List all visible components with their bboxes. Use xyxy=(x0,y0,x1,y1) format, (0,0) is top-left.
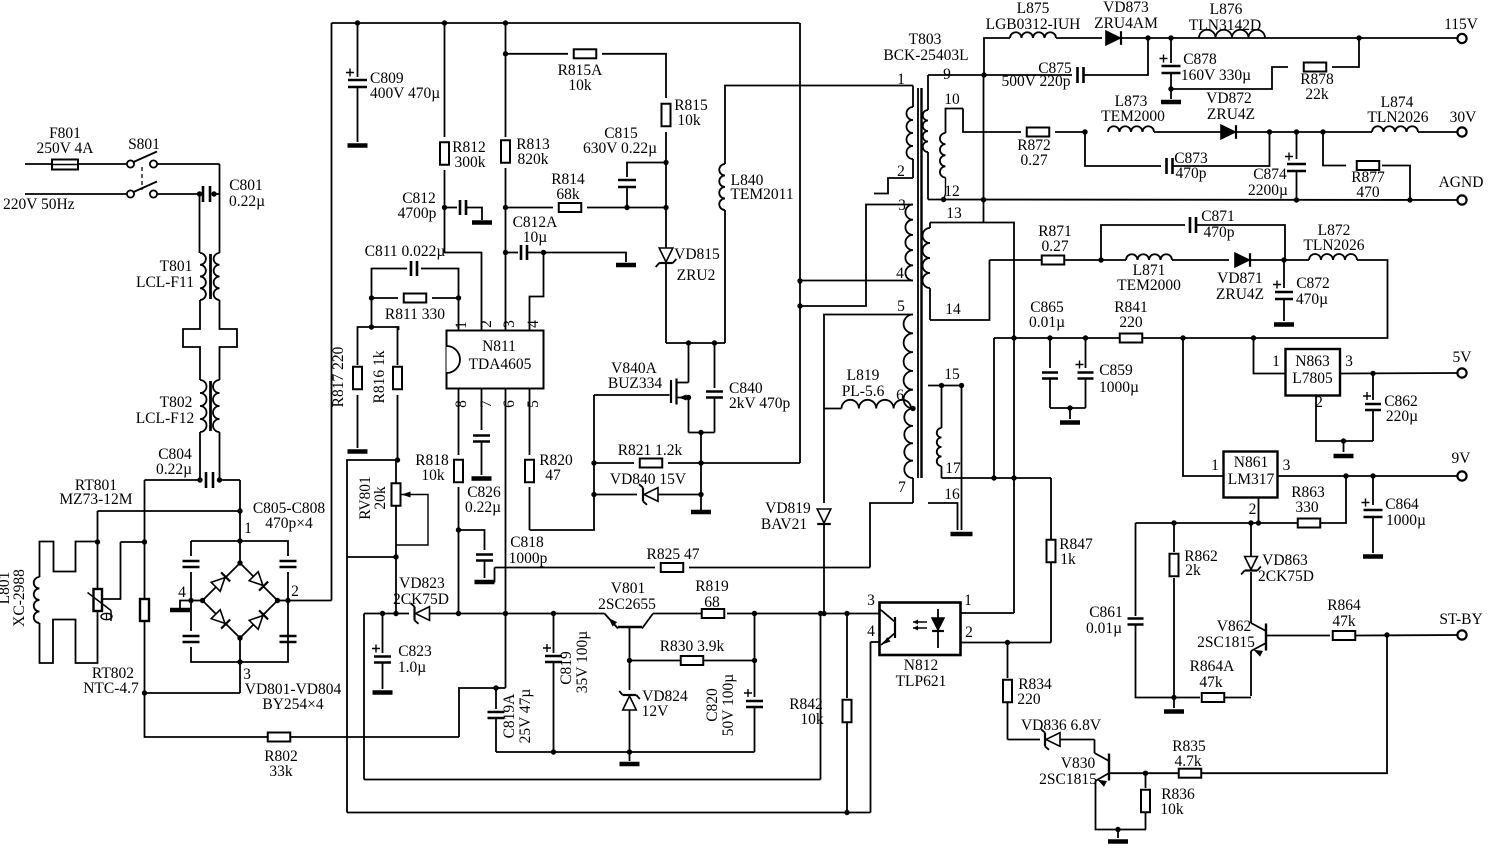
svg-text:VD873: VD873 xyxy=(1103,0,1149,16)
junction R821 right xyxy=(698,460,703,465)
resistor R864A xyxy=(1202,693,1225,702)
svg-text:C820: C820 xyxy=(704,688,721,722)
svg-text:30V: 30V xyxy=(1450,109,1478,126)
ground C812 xyxy=(472,220,492,225)
svg-text:0.01µ: 0.01µ xyxy=(1086,620,1122,637)
svg-text:C818: C818 xyxy=(510,534,544,551)
wire R802 to V801 area xyxy=(290,736,459,738)
junction R815A left xyxy=(503,51,508,56)
thermistor RT802 NTC xyxy=(144,542,146,599)
junction VD824 bottom xyxy=(627,749,632,754)
svg-text:820k: 820k xyxy=(518,151,549,168)
svg-text:N863: N863 xyxy=(1295,353,1330,370)
T803 primary winding 5-6 xyxy=(904,315,913,409)
capacitor C862 xyxy=(1372,373,1374,400)
svg-text:13: 13 xyxy=(946,205,962,222)
svg-text:2SC1815: 2SC1815 xyxy=(1039,771,1097,788)
svg-text:1k: 1k xyxy=(1060,551,1076,568)
svg-text:PL-5.6: PL-5.6 xyxy=(842,383,885,400)
junction bridge top xyxy=(237,560,242,565)
svg-text:47k: 47k xyxy=(1199,674,1223,691)
pin 8 lead and R818 xyxy=(458,389,460,456)
svg-text:2SC2655: 2SC2655 xyxy=(598,596,656,613)
resistor R871 xyxy=(1042,256,1065,265)
IC N863 L7805 box xyxy=(1286,349,1341,396)
svg-text:MZ73-12M: MZ73-12M xyxy=(59,491,132,508)
junction R814 left xyxy=(503,205,508,210)
junction 13 on 338 rail xyxy=(1011,335,1016,340)
junction C801 right xyxy=(211,191,216,196)
svg-text:4: 4 xyxy=(867,623,875,640)
transistor V801 xyxy=(605,614,619,629)
svg-text:10µ: 10µ xyxy=(523,229,548,246)
junction R811 left xyxy=(369,295,374,300)
wire degauss feed down xyxy=(97,511,99,542)
T803 primary winding 1-2 xyxy=(912,86,914,108)
svg-text:68: 68 xyxy=(704,594,720,611)
junction L873 left xyxy=(1082,129,1087,134)
wire to bridge pin 3 xyxy=(145,692,241,694)
junction C819 bottom xyxy=(551,749,556,754)
junction C878 top xyxy=(1168,35,1173,40)
capacitor C861 xyxy=(1128,619,1144,625)
capacitor C873 branch xyxy=(1085,132,1161,166)
wire RV801 tap xyxy=(347,556,396,558)
svg-text:470p: 470p xyxy=(1204,224,1235,241)
svg-text:12V: 12V xyxy=(642,703,670,720)
degauss connector comb upper xyxy=(40,542,98,578)
optocoupler N812 box xyxy=(880,603,961,656)
snubber bottom edge xyxy=(666,342,725,344)
svg-text:N812: N812 xyxy=(904,657,938,674)
svg-text:4: 4 xyxy=(178,584,186,601)
T803 secondary winding 15-17 xyxy=(941,386,943,429)
wire +310V riser xyxy=(331,23,333,601)
svg-text:LM317: LM317 xyxy=(1228,471,1275,488)
svg-text:1.0µ: 1.0µ xyxy=(398,659,426,676)
svg-text:R830 3.9k: R830 3.9k xyxy=(660,638,725,655)
svg-text:2: 2 xyxy=(1249,501,1257,518)
svg-text:220µ: 220µ xyxy=(1386,408,1418,425)
wire N863 pin1 xyxy=(1254,338,1286,374)
svg-text:NTC-4.7: NTC-4.7 xyxy=(83,680,139,697)
wire lower rail 779 xyxy=(364,779,821,781)
terminal 30V xyxy=(1457,127,1466,136)
capacitor C819 xyxy=(553,614,555,654)
opto LED xyxy=(932,618,944,631)
capacitor C812A xyxy=(506,252,519,254)
pin15 ground drop xyxy=(961,386,963,531)
svg-text:220V 50Hz: 220V 50Hz xyxy=(3,196,75,213)
svg-text:470µ: 470µ xyxy=(1296,291,1328,308)
junction R821 left xyxy=(591,460,596,465)
svg-text:VD872: VD872 xyxy=(1206,90,1252,107)
svg-text:C819: C819 xyxy=(558,651,575,685)
potentiometer RV801 xyxy=(395,460,397,483)
inductor L871 xyxy=(1126,254,1172,260)
junction N863 in xyxy=(1251,335,1256,340)
svg-text:250V 4A: 250V 4A xyxy=(37,140,95,157)
svg-text:1000p: 1000p xyxy=(509,550,548,567)
wire T802 left down xyxy=(199,432,201,480)
svg-text:AGND: AGND xyxy=(1439,174,1484,191)
ground N863 xyxy=(1334,454,1354,459)
svg-text:1: 1 xyxy=(453,321,470,329)
svg-text:2kV 470p: 2kV 470p xyxy=(729,395,791,412)
svg-text:0.27: 0.27 xyxy=(1020,152,1047,169)
junction C862 top xyxy=(1370,371,1375,376)
svg-text:0.01µ: 0.01µ xyxy=(1029,314,1065,331)
svg-text:C878: C878 xyxy=(1183,51,1217,68)
junction bridge bottom xyxy=(237,635,242,640)
junction C874 bottom xyxy=(1294,197,1299,202)
svg-text:6: 6 xyxy=(501,400,518,408)
junction winding 15 xyxy=(939,383,944,388)
svg-text:TLN2026: TLN2026 xyxy=(1303,237,1364,254)
junction R814 right xyxy=(663,205,668,210)
svg-text:C861: C861 xyxy=(1089,604,1123,621)
svg-text:2: 2 xyxy=(291,583,299,600)
wire V862 base to R864 xyxy=(1266,635,1330,637)
svg-text:C819A: C819A xyxy=(501,693,518,739)
svg-text:10k: 10k xyxy=(568,77,592,94)
wire N863 pin2 ground xyxy=(1316,396,1373,442)
junction C865 top xyxy=(1047,335,1052,340)
svg-text:1000µ: 1000µ xyxy=(1099,379,1139,396)
junction C819A top xyxy=(493,685,498,690)
junction R878 left xyxy=(1168,86,1173,91)
terminal AGND xyxy=(1457,195,1466,204)
wire AGND rail xyxy=(928,199,1459,202)
terminal ST-BY xyxy=(1457,630,1466,639)
wire R830 base rail xyxy=(630,660,681,662)
switch S801 link dashed xyxy=(141,167,143,190)
junction C840 top xyxy=(712,340,717,345)
T803 core xyxy=(917,88,919,478)
svg-text:14: 14 xyxy=(945,301,961,318)
wire R815 to VD815 line xyxy=(665,132,667,343)
junction 17 riser xyxy=(991,475,996,480)
svg-text:R811 330: R811 330 xyxy=(385,306,445,323)
svg-text:47: 47 xyxy=(545,467,561,484)
theta mark RT801 xyxy=(101,613,112,619)
svg-text:L875: L875 xyxy=(1017,0,1050,17)
capacitor C804 xyxy=(206,472,213,488)
svg-text:1: 1 xyxy=(1211,457,1219,474)
junction VD819 xyxy=(821,611,826,616)
svg-text:0.22µ: 0.22µ xyxy=(229,193,265,210)
svg-text:50V 100µ: 50V 100µ xyxy=(720,674,737,737)
junction VD840 left xyxy=(591,492,596,497)
junction pin6 rail xyxy=(503,611,508,616)
resistor R864 xyxy=(1333,631,1356,640)
svg-text:22k: 22k xyxy=(1305,86,1329,103)
svg-text:330: 330 xyxy=(1295,499,1319,516)
junction R877 top xyxy=(1320,129,1325,134)
svg-text:9V: 9V xyxy=(1452,450,1472,467)
junction drain xyxy=(686,340,691,345)
svg-text:L819: L819 xyxy=(847,367,880,384)
junction bridge right edge xyxy=(285,598,290,603)
junction V830 emitter gnd xyxy=(1115,827,1120,832)
resistor R878 branch xyxy=(1171,67,1288,89)
diode VD804 xyxy=(249,610,268,629)
junction pin3 wire xyxy=(797,303,802,308)
junction pin 6 xyxy=(910,406,915,411)
T803 secondary winding 9-12 xyxy=(927,75,929,110)
svg-text:0.27: 0.27 xyxy=(1041,238,1068,255)
wire pin14 to R871 xyxy=(930,260,990,320)
svg-text:LGB0312-IUH: LGB0312-IUH xyxy=(986,16,1081,33)
junction R813 top xyxy=(503,20,508,25)
ground C878 xyxy=(1161,100,1181,105)
svg-text:4: 4 xyxy=(525,320,542,328)
resistor R825 xyxy=(661,563,684,572)
svg-text:V862: V862 xyxy=(1217,618,1251,635)
transformer T801 core xyxy=(209,254,212,299)
svg-text:BUZ334: BUZ334 xyxy=(608,375,663,392)
svg-text:C811 0.022µ: C811 0.022µ xyxy=(365,243,446,260)
svg-text:500V 220p: 500V 220p xyxy=(1001,73,1070,90)
degauss connector comb lower xyxy=(40,611,98,663)
resistor R802 xyxy=(268,733,291,742)
thermistor RT801 xyxy=(97,542,99,589)
wire R816 R817 node xyxy=(372,298,399,330)
wire to pin 1 xyxy=(458,298,460,331)
junction R877 bottom xyxy=(1407,197,1412,202)
svg-text:2SC1815: 2SC1815 xyxy=(1197,634,1255,651)
resistor R813 xyxy=(505,23,507,137)
MOSFET V840A xyxy=(670,380,672,403)
resistor R836 xyxy=(1145,773,1147,788)
wire C804 to NTC column xyxy=(145,479,201,481)
resistor R878 xyxy=(1304,63,1327,72)
wire N861 pin3 9V xyxy=(1278,475,1460,477)
junction 9-13 tie xing xyxy=(981,197,986,202)
capacitor C811 xyxy=(372,269,408,299)
junction NTC top rail xyxy=(142,539,147,544)
junction ST-BY riser xyxy=(1384,632,1389,637)
wire N861 pin2 xyxy=(1258,498,1260,524)
capacitor C805 xyxy=(183,561,200,567)
MOSFET source wire xyxy=(688,398,690,433)
wire degauss feed xyxy=(98,510,241,512)
wire C865 C859 ground xyxy=(1050,407,1086,409)
resistor R847 xyxy=(1050,563,1052,643)
capacitor C871 branch xyxy=(1101,225,1185,260)
svg-text:S801: S801 xyxy=(128,136,160,153)
transformer T801 left winding xyxy=(200,253,206,300)
svg-text:68k: 68k xyxy=(556,186,580,203)
junction pin4 wire xyxy=(797,278,802,283)
svg-text:1: 1 xyxy=(244,520,252,537)
svg-text:C823: C823 xyxy=(398,643,432,660)
svg-text:7: 7 xyxy=(478,400,495,408)
wire source down xyxy=(700,433,702,511)
svg-text:T802: T802 xyxy=(160,394,193,411)
T803 pin 15 wire xyxy=(928,385,962,387)
svg-text:T803: T803 xyxy=(909,31,942,48)
T803 primary winding 3-4 xyxy=(905,205,913,281)
svg-text:300k: 300k xyxy=(455,154,486,171)
svg-text:C864: C864 xyxy=(1385,496,1419,513)
junction N863 gnd xyxy=(1341,438,1346,443)
diode VD836 zener xyxy=(1008,739,1041,741)
wire R825 left hook xyxy=(486,568,495,582)
svg-text:1000µ: 1000µ xyxy=(1386,512,1426,529)
capacitor C820 xyxy=(754,661,756,698)
svg-text:470p: 470p xyxy=(1176,165,1207,182)
svg-text:4.7k: 4.7k xyxy=(1174,753,1201,770)
wire R814 to VD815 line xyxy=(587,207,666,209)
svg-text:10k: 10k xyxy=(677,112,701,129)
wire to R814 xyxy=(506,207,554,209)
svg-text:BCK-25403L: BCK-25403L xyxy=(883,47,968,64)
junction R812 top xyxy=(442,20,447,25)
ground source xyxy=(691,510,711,515)
svg-text:TLP621: TLP621 xyxy=(896,673,947,690)
capacitor C815 xyxy=(627,163,666,178)
junction bridge left xyxy=(200,598,205,603)
wire N863 pin3 5V xyxy=(1340,372,1459,375)
junction source node xyxy=(698,430,703,435)
svg-text:R864: R864 xyxy=(1327,597,1361,614)
svg-text:ST-BY: ST-BY xyxy=(1439,611,1482,628)
resistor R841 xyxy=(1120,334,1143,343)
svg-text:R825 47: R825 47 xyxy=(647,546,700,563)
junction R811 right xyxy=(456,295,461,300)
resistor R877 xyxy=(1357,161,1380,170)
ground C812A rail xyxy=(616,263,636,268)
ground C872 xyxy=(1274,322,1294,327)
T803 pin 16 wire xyxy=(928,503,958,530)
capacitor C840 xyxy=(714,343,716,388)
svg-text:2: 2 xyxy=(897,163,905,180)
svg-text:ZRU4AM: ZRU4AM xyxy=(1094,15,1158,32)
junction pin 12 xyxy=(941,197,946,202)
svg-text:BAV21: BAV21 xyxy=(761,516,807,533)
resistor R872 xyxy=(1027,128,1050,137)
T803 pin 5 wire xyxy=(824,315,913,409)
svg-text:3: 3 xyxy=(1345,353,1353,370)
terminal 5V xyxy=(1457,368,1466,377)
IC N811 TDA4605 box xyxy=(447,331,544,389)
svg-text:17: 17 xyxy=(945,460,961,477)
junction R816 bottom xyxy=(395,457,400,462)
diode VD840 zener xyxy=(594,494,637,496)
diode VD863 zener xyxy=(1250,523,1252,556)
svg-text:VD863: VD863 xyxy=(1262,552,1308,569)
capacitor C806 xyxy=(280,561,297,567)
T803 pin 2 stub xyxy=(874,178,913,194)
capacitor C864 xyxy=(1372,476,1374,505)
svg-text:1: 1 xyxy=(964,592,972,609)
wire VD823 rail xyxy=(364,613,409,615)
ground R862 rail xyxy=(1164,709,1184,714)
junction R818 rail xyxy=(456,611,461,616)
svg-text:C871: C871 xyxy=(1201,208,1235,225)
resistor R863 xyxy=(1298,519,1321,528)
wire mains N to switch xyxy=(25,193,126,195)
svg-text:1: 1 xyxy=(1272,353,1280,370)
junction C819 top xyxy=(551,611,556,616)
diode VD802 xyxy=(249,572,268,591)
svg-text:12: 12 xyxy=(944,183,960,200)
svg-text:1: 1 xyxy=(897,71,905,88)
inductor L801 degaussing coil xyxy=(34,577,40,623)
junction C804 left xyxy=(197,477,202,482)
wire R812 to pin2 xyxy=(445,208,482,331)
svg-text:VD871: VD871 xyxy=(1217,270,1263,287)
resistor R815A xyxy=(574,49,597,58)
wire pin10 to R872 xyxy=(963,109,1021,133)
transformer T802 right winding xyxy=(213,380,219,432)
T803 pin 17 wire xyxy=(942,477,1052,479)
svg-text:C859: C859 xyxy=(1099,362,1133,379)
wire bottom rail 812 xyxy=(347,812,871,814)
transformer T801 right winding xyxy=(214,253,220,300)
junction C871 left xyxy=(1098,257,1103,262)
capacitor C878 xyxy=(1170,38,1172,63)
capacitor C875 branch xyxy=(984,74,1072,76)
transformer T802 left winding xyxy=(200,380,207,432)
wire V801 collector to R819 xyxy=(653,613,702,615)
T803 pin 4 wire xyxy=(800,280,913,282)
junction pin9 node xyxy=(981,72,986,77)
wire C804 to bridge column xyxy=(220,479,241,481)
svg-text:5V: 5V xyxy=(1453,349,1473,366)
svg-text:VD823: VD823 xyxy=(399,575,445,592)
MOSFET drain wire xyxy=(688,343,690,383)
svg-text:VD840 15V: VD840 15V xyxy=(610,471,687,488)
resistor R817 xyxy=(358,327,372,365)
junction NTC bottom xyxy=(142,690,147,695)
ground C865 C859 xyxy=(1060,420,1080,425)
diode VD823 zener xyxy=(411,603,430,624)
junction R834 top xyxy=(1005,640,1010,645)
svg-text:7: 7 xyxy=(898,479,906,496)
inductor L876 xyxy=(1199,30,1265,38)
svg-text:ZRU2: ZRU2 xyxy=(677,267,716,284)
wire fuse to switch xyxy=(78,163,126,165)
pin 7 lead and cap xyxy=(481,389,483,431)
capacitor C865 xyxy=(1049,338,1051,368)
snubber lower edge xyxy=(689,432,715,434)
svg-text:3: 3 xyxy=(1283,457,1291,474)
junction N861 riser xyxy=(1180,335,1185,340)
svg-text:33k: 33k xyxy=(269,763,293,780)
svg-text:2CK75D: 2CK75D xyxy=(1258,568,1314,585)
svg-text:470: 470 xyxy=(1356,184,1380,201)
svg-text:115V: 115V xyxy=(1444,16,1479,33)
capacitor C859 xyxy=(1085,338,1087,368)
ground pin7 cap xyxy=(472,476,492,481)
junction bridge top edge xyxy=(237,538,242,543)
wire VD872 to L874 xyxy=(1237,131,1372,133)
diode VD801 xyxy=(211,572,230,591)
svg-text:16: 16 xyxy=(944,486,960,503)
junction RT801 top xyxy=(95,539,100,544)
line filter cross symbol xyxy=(183,300,200,380)
wire pin6 column lower xyxy=(505,614,507,689)
svg-text:470p×4: 470p×4 xyxy=(265,515,313,532)
junction standby rail riser xyxy=(818,611,823,616)
svg-text:220: 220 xyxy=(1017,691,1041,708)
svg-text:3: 3 xyxy=(501,320,518,328)
capacitor C807 xyxy=(183,636,200,642)
svg-text:220: 220 xyxy=(1119,314,1143,331)
junction pin2 node xyxy=(1256,520,1261,525)
